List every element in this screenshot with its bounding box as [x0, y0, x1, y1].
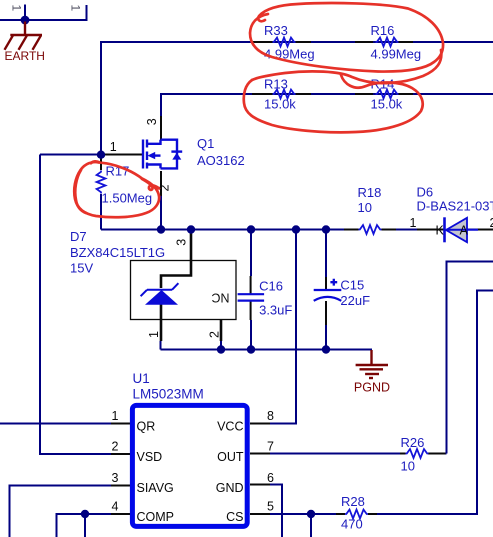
svg-text:SIAVG: SIAVG [137, 481, 174, 495]
svg-text:4.99Meg: 4.99Meg [371, 47, 422, 62]
svg-text:1.50Meg: 1.50Meg [102, 191, 153, 206]
svg-text:R28: R28 [341, 494, 365, 509]
svg-text:4: 4 [112, 500, 119, 514]
svg-text:COMP: COMP [137, 510, 175, 524]
svg-text:3: 3 [145, 118, 159, 125]
svg-text:3: 3 [175, 239, 189, 246]
svg-text:15.0k: 15.0k [371, 97, 403, 112]
svg-text:4.99Meg: 4.99Meg [264, 47, 315, 62]
svg-text:7: 7 [267, 440, 274, 454]
svg-text:15.0k: 15.0k [264, 97, 296, 112]
svg-text:D7: D7 [70, 229, 87, 244]
svg-text:CS: CS [226, 510, 243, 524]
svg-text:Q1: Q1 [197, 136, 214, 151]
svg-text:D-BAS21-03T: D-BAS21-03T [417, 199, 493, 214]
svg-text:3: 3 [112, 471, 119, 485]
svg-text:R18: R18 [358, 185, 382, 200]
svg-text:2: 2 [112, 440, 119, 454]
svg-text:VCC: VCC [217, 420, 243, 434]
svg-text:1: 1 [112, 409, 119, 423]
svg-text:K: K [436, 224, 445, 238]
svg-text:10: 10 [401, 459, 415, 474]
svg-text:3.3uF: 3.3uF [259, 303, 292, 318]
svg-text:PGND: PGND [354, 381, 390, 395]
svg-text:QR: QR [137, 420, 156, 434]
svg-text:1: 1 [147, 331, 161, 338]
svg-text:R16: R16 [371, 23, 395, 38]
svg-text:AO3162: AO3162 [197, 153, 245, 168]
svg-text:2: 2 [208, 331, 222, 338]
svg-text:1: 1 [110, 140, 117, 154]
svg-text:BZX84C15LT1G: BZX84C15LT1G [70, 245, 165, 260]
svg-text:EARTH: EARTH [5, 49, 45, 63]
svg-text:470: 470 [341, 517, 363, 532]
svg-text:8: 8 [267, 409, 274, 423]
svg-text:VSD: VSD [137, 450, 163, 464]
svg-text:LM5023MM: LM5023MM [133, 387, 204, 402]
svg-text:D6: D6 [417, 185, 434, 200]
svg-text:15V: 15V [70, 261, 93, 276]
svg-text:R26: R26 [401, 435, 425, 450]
svg-text:5: 5 [267, 500, 274, 514]
svg-text:R33: R33 [264, 23, 288, 38]
svg-text:C15: C15 [340, 278, 364, 293]
svg-text:6: 6 [267, 471, 274, 485]
svg-text:OUT: OUT [217, 450, 244, 464]
svg-text:1: 1 [410, 216, 417, 230]
svg-text:2: 2 [490, 216, 493, 230]
svg-text:NC: NC [211, 291, 229, 305]
svg-text:A: A [460, 224, 469, 238]
svg-text:1: 1 [69, 5, 83, 12]
svg-text:R13: R13 [264, 77, 288, 92]
svg-text:22uF: 22uF [340, 293, 370, 308]
svg-text:GND: GND [216, 481, 244, 495]
svg-text:U1: U1 [133, 371, 150, 386]
svg-text:C16: C16 [259, 279, 283, 294]
svg-text:1: 1 [10, 5, 24, 12]
svg-text:10: 10 [358, 200, 372, 215]
